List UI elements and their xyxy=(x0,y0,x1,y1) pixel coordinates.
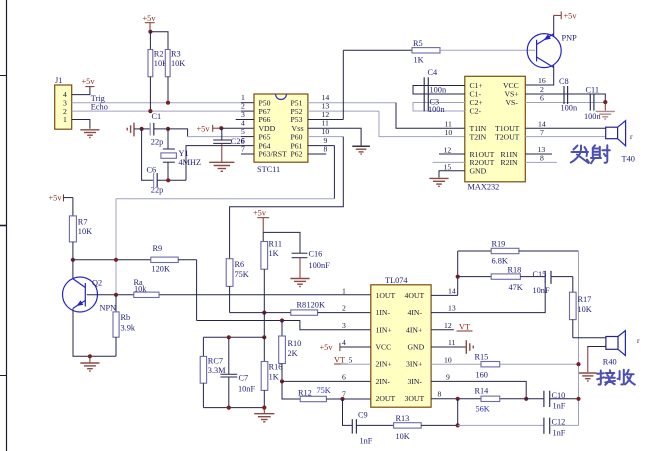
junction dot +5v R2 R3 node xyxy=(148,30,152,34)
svg-text:120K: 120K xyxy=(307,301,325,310)
svg-text:GND: GND xyxy=(470,167,487,176)
svg-text:7: 7 xyxy=(342,390,346,399)
wire R19 right vertical xyxy=(578,251,580,425)
wire U4 3OUT pin8 row xyxy=(431,398,544,400)
svg-text:100n: 100n xyxy=(428,105,445,114)
svg-text:Y1: Y1 xyxy=(179,149,189,158)
U2 pin3 stub xyxy=(236,119,254,121)
svg-text:+5v: +5v xyxy=(320,343,334,352)
wire R17 to speaker R40 xyxy=(573,337,606,339)
svg-text:R7: R7 xyxy=(78,218,88,227)
svg-text:R14: R14 xyxy=(475,387,490,396)
svg-text:1K: 1K xyxy=(269,249,279,258)
svg-text:4MHZ: 4MHZ xyxy=(179,158,202,167)
svg-text:100nF: 100nF xyxy=(309,261,331,270)
wire U2 Vss pin11 to ground xyxy=(308,128,361,145)
svg-text:12: 12 xyxy=(444,321,452,330)
power +5v VDD xyxy=(197,125,222,134)
svg-text:47K: 47K xyxy=(509,283,523,292)
U2 pin numbers right xyxy=(322,93,330,153)
capacitor C4 xyxy=(413,68,465,95)
wire U3 VS+ pin2 xyxy=(525,94,605,102)
svg-text:VS-: VS- xyxy=(506,98,519,107)
wire pin8 node down to C12 row xyxy=(457,399,459,426)
svg-text:+5v: +5v xyxy=(82,77,96,86)
wire Echo net J1 pin2 to U2 pin2 xyxy=(72,110,254,112)
junction dot R12 R10 pin6 xyxy=(280,379,284,383)
resistor R11 xyxy=(261,240,282,313)
wire XTAL node to U2 P65 xyxy=(168,129,254,137)
svg-text:R8: R8 xyxy=(297,301,307,310)
svg-text:3: 3 xyxy=(342,321,346,330)
svg-text:R17: R17 xyxy=(578,295,592,304)
svg-text:R16: R16 xyxy=(269,363,283,372)
svg-text:C4: C4 xyxy=(428,68,439,77)
svg-text:+5v: +5v xyxy=(564,12,578,21)
svg-text:1nF: 1nF xyxy=(360,437,373,446)
resistor R2 xyxy=(148,32,168,111)
wire Q1 emitter to +5v xyxy=(553,15,555,36)
svg-text:P53: P53 xyxy=(291,115,303,124)
capacitor C7 xyxy=(220,337,255,407)
svg-text:1K: 1K xyxy=(414,56,424,65)
wire left rail C1 to C6 xyxy=(142,129,154,180)
svg-text:VT: VT xyxy=(459,323,470,332)
wire RC rail top xyxy=(203,336,264,338)
junction dot pin9 on pin8 row xyxy=(524,397,528,401)
capacitor C12 xyxy=(458,417,579,437)
speaker T40 xyxy=(606,121,635,164)
junction dot R7 bottom xyxy=(71,258,75,262)
svg-text:2OUT: 2OUT xyxy=(376,394,396,403)
svg-text:10K: 10K xyxy=(171,59,185,68)
power +5v above R2 R3 xyxy=(143,14,157,32)
svg-text:7: 7 xyxy=(540,128,544,137)
svg-text:4OUT: 4OUT xyxy=(405,291,425,300)
svg-text:R12: R12 xyxy=(298,389,312,398)
svg-text:6: 6 xyxy=(342,373,346,382)
capacitor C11 xyxy=(584,86,601,122)
wire R9 right to R10 node xyxy=(197,260,282,321)
svg-text:100n: 100n xyxy=(584,112,601,121)
svg-text:1nF: 1nF xyxy=(553,402,566,411)
svg-text:C8: C8 xyxy=(559,77,569,86)
junction dot C12 row left xyxy=(456,423,460,427)
junction dot C7 top xyxy=(227,335,231,339)
svg-text:7: 7 xyxy=(241,144,245,153)
svg-text:22p: 22p xyxy=(151,186,163,195)
capacitor C6 xyxy=(147,166,187,195)
transistor Q1 PNP xyxy=(527,34,577,68)
junction dot P61 line on R9 wire xyxy=(114,258,118,262)
svg-text:RC7: RC7 xyxy=(208,357,223,366)
svg-text:C2-: C2- xyxy=(470,107,482,116)
svg-text:R3: R3 xyxy=(171,50,181,59)
junction dot R11 on R8 row xyxy=(262,311,266,315)
svg-text:2: 2 xyxy=(342,304,346,313)
wire Q2 base to Ra and U4 1OUT xyxy=(87,294,371,296)
svg-text:75K: 75K xyxy=(317,386,331,395)
junction dot emitter ground xyxy=(88,354,92,358)
svg-text:1: 1 xyxy=(63,115,67,124)
wire J1 pin4 to +5v xyxy=(72,87,90,95)
wire R40 bottom to ground xyxy=(588,347,606,373)
U3 R1IN stub xyxy=(525,153,552,155)
svg-text:10K: 10K xyxy=(78,227,92,236)
wire U3 GND pin15 to ground xyxy=(439,171,465,178)
U2 pin numbers left xyxy=(241,93,245,153)
svg-text:6.8K: 6.8K xyxy=(492,257,508,266)
svg-text:VT: VT xyxy=(334,356,345,365)
ground R40 xyxy=(579,373,597,381)
svg-text:2K: 2K xyxy=(288,349,298,358)
svg-text:R6: R6 xyxy=(235,260,245,269)
ground R16 xyxy=(254,408,274,422)
resistor R5 xyxy=(343,39,535,65)
U3 R1OUT stub xyxy=(439,153,465,155)
svg-text:10nF: 10nF xyxy=(238,385,255,394)
svg-text:R13: R13 xyxy=(396,414,410,423)
transistor Q2 NPN xyxy=(63,260,117,313)
junction dot Y1 bottom xyxy=(166,178,170,182)
svg-text:+5v: +5v xyxy=(197,125,211,134)
wire U2 P53 pin12 to R5 xyxy=(308,50,343,119)
resistor RC7 xyxy=(200,337,226,407)
svg-text:10K: 10K xyxy=(396,432,410,441)
junction dot R12 pin7 node xyxy=(340,397,344,401)
svg-text:10nF: 10nF xyxy=(533,286,550,295)
svg-text:13: 13 xyxy=(448,304,456,313)
resistor R19 xyxy=(458,240,579,266)
svg-text:C6: C6 xyxy=(147,166,157,175)
ground Vss xyxy=(352,146,370,154)
IC U2 STC11 xyxy=(254,94,308,174)
junction dot R3 on Trig wire xyxy=(166,101,170,105)
IC U4 TL074 xyxy=(371,276,431,407)
svg-text:10K: 10K xyxy=(578,305,592,314)
svg-text:8: 8 xyxy=(438,390,442,399)
resistor Ra xyxy=(134,278,160,298)
capacitor C1 xyxy=(142,112,168,147)
svg-text:P66: P66 xyxy=(259,115,271,124)
resistor R6 xyxy=(226,259,249,313)
wire U4 2IN- pin6 xyxy=(282,380,371,382)
capacitor C9 xyxy=(352,411,393,446)
svg-text:J1: J1 xyxy=(55,76,62,85)
junction dot C7 bottom xyxy=(227,406,231,410)
svg-text:C10: C10 xyxy=(552,391,566,400)
U2 pin8 stub xyxy=(308,153,326,155)
junction dot VDD node xyxy=(219,126,223,130)
wire C6 node to U2 P64 xyxy=(186,146,254,181)
U4 pin numbers xyxy=(342,287,456,399)
svg-text:T2IN: T2IN xyxy=(470,132,487,141)
U3 pin numbers xyxy=(444,76,546,172)
svg-text:3OUT: 3OUT xyxy=(405,394,425,403)
svg-text:10: 10 xyxy=(445,128,453,137)
capacitor C3 xyxy=(413,95,465,114)
svg-text:5: 5 xyxy=(349,355,353,364)
svg-text:2IN+: 2IN+ xyxy=(376,360,392,369)
wire VDD node to U2 pin4 xyxy=(221,127,254,129)
wire U4 3IN+ pin10 to R15 xyxy=(431,363,481,365)
svg-text:4: 4 xyxy=(342,338,346,347)
wire Q1 collector to U3 VCC pin16 xyxy=(525,65,553,85)
svg-text:6: 6 xyxy=(540,93,544,102)
wire U4 4OUT pin14 to R18 R19 xyxy=(431,251,458,295)
resistor R10 xyxy=(279,321,302,382)
power +5v Q1 xyxy=(554,11,578,20)
svg-text:3.9k: 3.9k xyxy=(121,324,136,333)
junction dot R10 top xyxy=(280,318,284,322)
svg-text:1K: 1K xyxy=(269,373,279,382)
wire ground rail RC7 C7 R16 xyxy=(203,407,264,409)
wire U3 T1OUT pin14 to speaker xyxy=(525,127,605,129)
resistor R3 xyxy=(165,50,185,103)
net label Trig xyxy=(91,94,105,103)
svg-text:1nF: 1nF xyxy=(553,428,566,437)
wire +5v node to R3 top xyxy=(150,32,168,50)
capacitor C26 xyxy=(213,128,244,162)
svg-text:75K: 75K xyxy=(235,270,249,279)
crystal Y1 xyxy=(161,129,201,180)
power +5v U4 VCC xyxy=(320,343,371,352)
svg-text:16: 16 xyxy=(538,76,546,85)
svg-text:R10: R10 xyxy=(288,339,302,348)
svg-text:NPN: NPN xyxy=(100,304,117,313)
resistor R15 xyxy=(475,353,579,380)
wire +5v T node xyxy=(263,232,300,253)
capacitor C16 xyxy=(292,250,330,278)
svg-text:2IN-: 2IN- xyxy=(376,377,391,386)
svg-text:15: 15 xyxy=(444,163,452,172)
svg-text:P62: P62 xyxy=(291,150,303,159)
wire U4 GND pin11 stub xyxy=(431,346,466,348)
junction dot RC rail right xyxy=(262,335,266,339)
capacitor C15 xyxy=(533,270,573,295)
resistor R8 xyxy=(291,301,371,316)
svg-text:+5v: +5v xyxy=(253,209,267,218)
svg-text:r: r xyxy=(630,132,633,141)
ground VS node xyxy=(596,102,615,119)
svg-text:1IN-: 1IN- xyxy=(376,308,391,317)
svg-text:TL074: TL074 xyxy=(385,276,408,285)
svg-text:9: 9 xyxy=(446,373,450,382)
svg-text:Echo: Echo xyxy=(91,103,108,112)
svg-text:Trig: Trig xyxy=(91,94,105,103)
svg-text:10k: 10k xyxy=(134,284,147,293)
wire U3 VS- pin6 xyxy=(525,102,605,104)
svg-text:Rb: Rb xyxy=(121,313,131,322)
sheet border xyxy=(0,0,7,451)
svg-text:T2OUT: T2OUT xyxy=(495,132,520,141)
ground U3 xyxy=(429,178,448,186)
net label Echo xyxy=(91,103,108,112)
wire U4 2OUT pin7 xyxy=(343,398,371,400)
svg-text:C9: C9 xyxy=(358,411,368,420)
wire R11 node to RC rail xyxy=(263,313,265,338)
svg-text:3.3M: 3.3M xyxy=(208,366,226,375)
connector J1 xyxy=(55,76,72,129)
svg-text:P60: P60 xyxy=(291,132,303,141)
ground left of C1 rotated xyxy=(127,123,141,137)
wire U2 P51 pin14 to U3 T1IN xyxy=(308,103,465,129)
svg-text:R15: R15 xyxy=(475,353,489,362)
svg-text:11: 11 xyxy=(448,338,456,347)
label jie-shou receive xyxy=(597,370,635,385)
svg-text:R9: R9 xyxy=(153,244,163,253)
junction dot C1 left node xyxy=(140,127,144,131)
resistor R7 xyxy=(69,198,92,260)
svg-text:3IN-: 3IN- xyxy=(408,377,423,386)
power +5v J1 xyxy=(82,77,96,87)
svg-text:r: r xyxy=(637,336,640,345)
svg-text:C12: C12 xyxy=(552,417,566,426)
svg-text:100n: 100n xyxy=(430,85,447,94)
power +5v R7 xyxy=(49,194,73,203)
junction dot R16 bottom xyxy=(262,406,266,410)
svg-text:12: 12 xyxy=(444,146,452,155)
svg-text:STC11: STC11 xyxy=(257,165,280,174)
svg-text:R5: R5 xyxy=(413,39,423,48)
resistor R13 xyxy=(394,414,458,441)
U3 R2OUT stub xyxy=(433,161,465,163)
svg-text:3: 3 xyxy=(241,110,245,119)
svg-text:Q2: Q2 xyxy=(92,279,102,288)
wire U2 P52 pin13 to U3 T2IN xyxy=(308,111,465,137)
svg-text:1OUT: 1OUT xyxy=(376,291,396,300)
svg-text:1IN+: 1IN+ xyxy=(376,325,392,334)
svg-text:56K: 56K xyxy=(476,405,490,414)
wire U2 P60 pin10 to R6 xyxy=(230,137,344,259)
wire pin7 node to C9 xyxy=(343,399,353,425)
svg-text:4IN-: 4IN- xyxy=(408,308,423,317)
svg-text:160: 160 xyxy=(476,371,488,380)
svg-text:4IN+: 4IN+ xyxy=(406,325,422,334)
speaker R40 xyxy=(603,331,640,367)
wire Trig net J1 pin3 to U2 pin1 xyxy=(72,102,254,104)
svg-text:PNP: PNP xyxy=(562,34,578,43)
wire R7 node to R9 xyxy=(73,259,151,261)
resistor R16 xyxy=(261,337,282,407)
svg-text:1: 1 xyxy=(342,287,346,296)
capacitor C10 xyxy=(544,391,579,411)
junction dot R18 left xyxy=(456,275,460,279)
svg-text:C16: C16 xyxy=(309,250,323,259)
net label VT pin12 xyxy=(431,323,472,332)
U3 R2IN stub xyxy=(525,161,557,163)
ground J1 xyxy=(80,130,99,138)
label fa-she transmit xyxy=(571,145,610,163)
wire Q2 emitter to ground rail xyxy=(73,308,116,356)
svg-text:C7: C7 xyxy=(239,374,249,383)
ground C26 xyxy=(209,162,234,171)
svg-text:R2IN: R2IN xyxy=(501,158,519,167)
svg-text:P65: P65 xyxy=(259,132,271,141)
junction dot R2 on Echo wire xyxy=(148,109,152,113)
IC U3 MAX232 xyxy=(465,76,526,191)
wire U3 T2OUT pin7 to speaker xyxy=(525,136,605,138)
svg-text:VCC: VCC xyxy=(376,343,392,352)
svg-text:C11: C11 xyxy=(586,86,600,95)
svg-text:R11: R11 xyxy=(269,240,283,249)
resistor R12 xyxy=(282,381,343,401)
junction dot C1 right Y1 top xyxy=(166,127,170,131)
svg-text:C1: C1 xyxy=(152,112,162,121)
wire J1 pin1 to ground xyxy=(72,120,90,129)
wire U4 3IN- pin9 down xyxy=(431,381,526,398)
svg-text:R2: R2 xyxy=(154,50,164,59)
wire R8 row xyxy=(230,312,291,314)
capacitor C8 xyxy=(559,77,578,112)
ground Q2 xyxy=(80,356,99,371)
ground U4 rotated xyxy=(466,340,473,354)
svg-text:R40: R40 xyxy=(603,358,617,367)
resistor R9 xyxy=(151,244,197,274)
resistor R18 xyxy=(458,266,546,293)
net label VT pin5 xyxy=(334,356,371,365)
resistor R14 xyxy=(475,387,500,414)
svg-text:C15: C15 xyxy=(533,270,547,279)
ground C16 xyxy=(290,279,309,287)
svg-text:+5v: +5v xyxy=(49,194,63,203)
svg-text:MAX232: MAX232 xyxy=(468,183,500,192)
svg-text:5: 5 xyxy=(241,127,245,136)
svg-text:GND: GND xyxy=(408,343,425,352)
svg-text:P63/RST: P63/RST xyxy=(259,150,288,159)
svg-text:120K: 120K xyxy=(152,265,170,274)
wire R10 node to U4 1IN+ xyxy=(282,321,371,330)
resistor Rb xyxy=(113,295,136,357)
svg-text:R19: R19 xyxy=(492,240,506,249)
resistor R17 xyxy=(570,277,592,338)
wire U2 P61 pin9 to Q2 base node xyxy=(116,146,334,295)
junction dot pin8 C12 branch xyxy=(456,397,460,401)
U2 pin7 stub xyxy=(241,153,254,155)
svg-text:T40: T40 xyxy=(622,155,635,164)
junction dot VS node xyxy=(603,100,607,104)
svg-text:100n: 100n xyxy=(561,103,578,112)
svg-text:+5v: +5v xyxy=(143,14,157,23)
svg-text:8: 8 xyxy=(540,154,544,163)
wire U4 4IN- pin13 to C15 xyxy=(431,284,545,313)
svg-text:10: 10 xyxy=(444,355,452,364)
svg-text:R18: R18 xyxy=(508,266,522,275)
junction dot R15 right xyxy=(576,362,580,366)
power +5v R11 xyxy=(253,209,269,233)
junction dot base node xyxy=(114,293,118,297)
svg-text:3IN+: 3IN+ xyxy=(406,360,422,369)
junction dot C10 right xyxy=(576,397,580,401)
svg-text:22p: 22p xyxy=(151,138,163,147)
svg-text:14: 14 xyxy=(448,287,456,296)
